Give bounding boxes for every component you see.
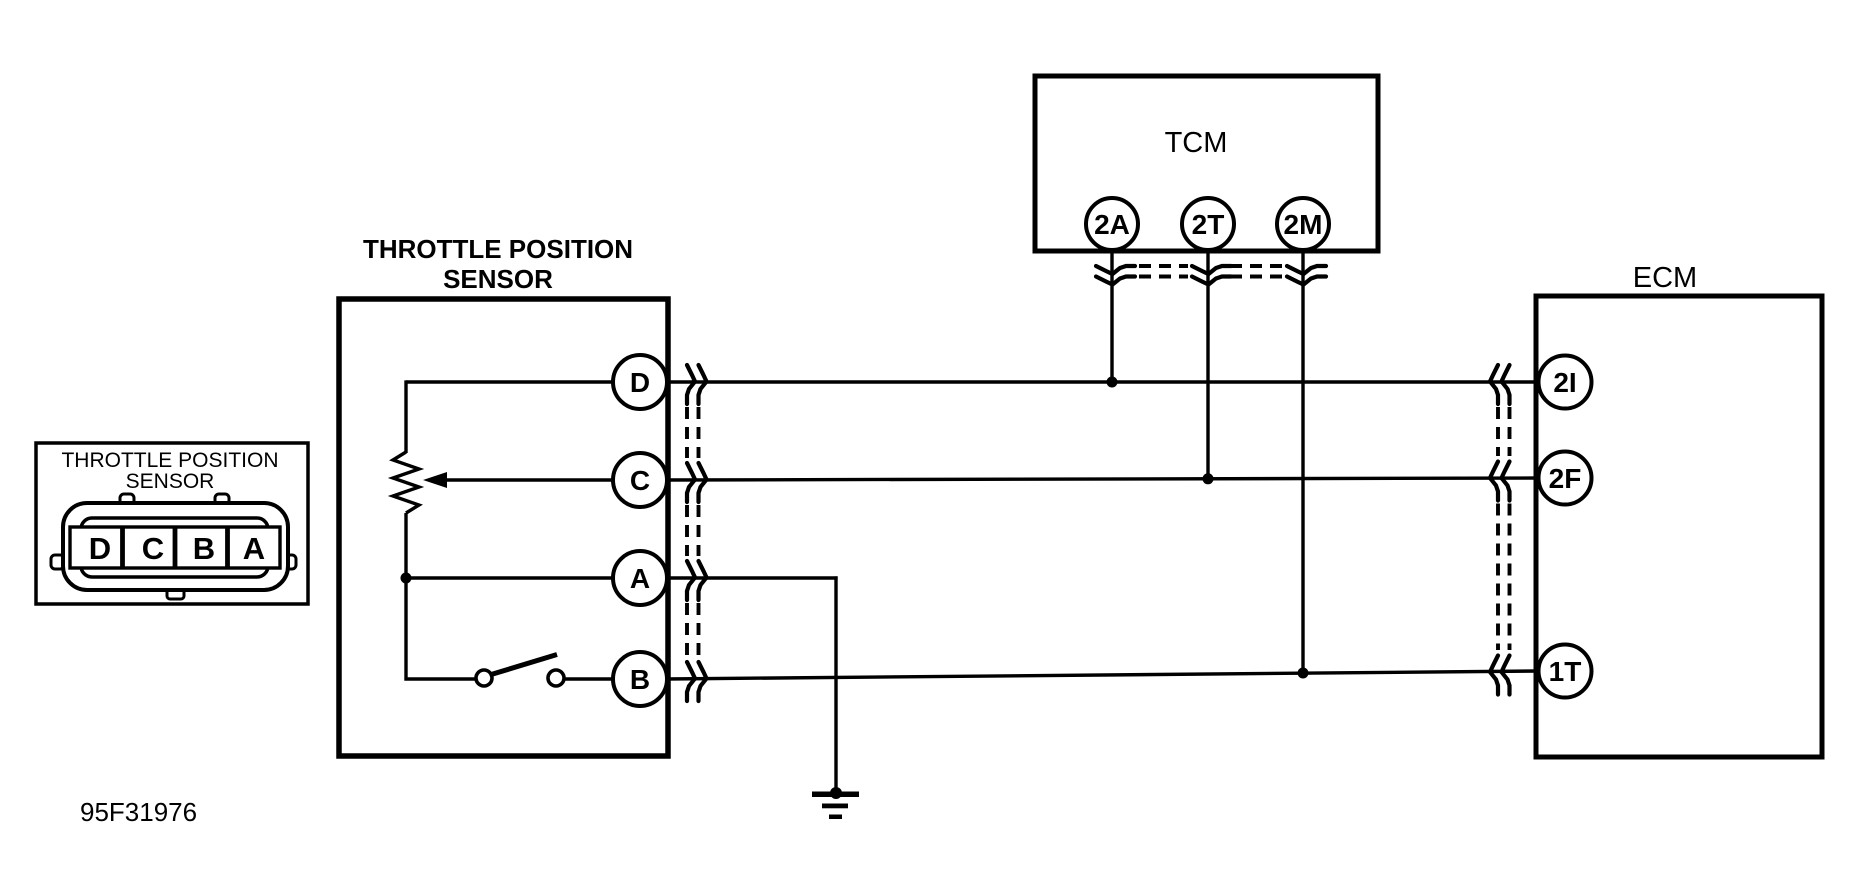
wire vertical from resistor bottom to B corner <box>406 513 477 679</box>
svg-text:THROTTLE POSITION: THROTTLE POSITION <box>363 234 633 264</box>
connector dashed link TCM side <box>1139 266 1283 277</box>
svg-text:ECM: ECM <box>1633 262 1697 294</box>
pin A <box>613 551 667 605</box>
pin 2A <box>1086 198 1138 250</box>
wire vertical from D to resistor top <box>404 380 407 453</box>
wiper arrowhead pointing at resistor <box>423 472 447 488</box>
connector view frame <box>36 443 308 604</box>
wire ground drop vertical <box>834 576 837 793</box>
pin C <box>613 453 667 507</box>
wire break marks TCM side, 2M wire <box>1287 266 1326 285</box>
node junction 2A to D wire <box>1107 377 1118 388</box>
connector top lug left <box>120 494 134 507</box>
svg-text:2M: 2M <box>1284 209 1323 240</box>
resistor (potentiometer element) <box>393 452 419 513</box>
svg-text:2T: 2T <box>1192 209 1225 240</box>
TCM box <box>1035 76 1378 251</box>
svg-text:SENSOR: SENSOR <box>443 264 553 294</box>
terminal divider C|B <box>173 527 178 568</box>
wire B row from sensor to ECM <box>666 671 1539 679</box>
switch lever (open throttle switch) <box>490 655 558 676</box>
wire break marks ECM side, C row <box>1490 462 1510 501</box>
wire break marks ECM side, B row <box>1490 656 1510 695</box>
svg-text:D: D <box>89 531 111 566</box>
connector side lug right <box>283 555 296 569</box>
connector view title <box>61 449 278 493</box>
svg-text:D: D <box>630 367 650 398</box>
svg-text:95F31976: 95F31976 <box>80 797 197 827</box>
connector bottom lug <box>167 586 184 599</box>
wire break marks TCM side, 2A wire <box>1096 266 1135 285</box>
ground symbol <box>812 787 859 819</box>
wire A row inside sensor <box>406 576 614 579</box>
pin D <box>613 355 667 409</box>
terminal strip <box>70 527 280 568</box>
svg-text:1T: 1T <box>1549 656 1582 687</box>
ECM box <box>1536 296 1822 757</box>
wire A row from sensor to ground drop <box>666 576 838 579</box>
switch contact circle right <box>548 670 564 686</box>
wire break marks sensor side, A row <box>687 561 707 600</box>
pin 2T <box>1182 198 1234 250</box>
wire break marks TCM side, 2T wire <box>1192 266 1231 285</box>
connector top lug right <box>215 494 229 507</box>
throttle position sensor box <box>339 299 668 756</box>
wire D row inside sensor <box>406 380 614 383</box>
svg-text:TCM: TCM <box>1165 127 1228 159</box>
pin B <box>613 652 667 706</box>
pin 1T <box>1539 645 1592 698</box>
wire C wiper arrow line <box>443 478 614 481</box>
wire break marks sensor side, B row <box>687 662 707 701</box>
wire break marks sensor side, C row <box>687 463 707 502</box>
wire TCM pin 2M vertical <box>1301 250 1304 673</box>
wire break (connector) marks sensor side, D row <box>687 365 707 404</box>
pin 2I <box>1539 356 1592 409</box>
connector dashed link ECM side <box>1498 407 1510 650</box>
node junction dot A row on vertical <box>401 573 412 584</box>
svg-text:C: C <box>142 531 164 566</box>
svg-text:2I: 2I <box>1553 367 1576 398</box>
wire D row from sensor to ECM <box>666 380 1539 383</box>
wire C row from sensor to ECM <box>666 478 1539 480</box>
terminal divider D|C <box>120 527 125 568</box>
pin 2F <box>1539 452 1592 505</box>
svg-text:2A: 2A <box>1094 209 1130 240</box>
connector side lug left <box>51 555 64 569</box>
connector outer shell <box>63 503 288 590</box>
terminal divider B|A <box>225 527 230 568</box>
svg-text:B: B <box>630 664 650 695</box>
node junction 2T to C wire <box>1203 473 1214 484</box>
svg-text:2F: 2F <box>1549 463 1582 494</box>
wire TCM pin 2A vertical <box>1110 250 1113 382</box>
wire from switch to pin B <box>565 677 614 680</box>
connector inner shell <box>81 518 268 577</box>
svg-text:SENSOR: SENSOR <box>126 470 215 493</box>
node junction 2M to B wire <box>1298 668 1309 679</box>
svg-text:A: A <box>243 531 265 566</box>
svg-text:C: C <box>630 465 650 496</box>
svg-text:THROTTLE POSITION: THROTTLE POSITION <box>61 449 278 472</box>
throttle position sensor box title <box>363 234 633 294</box>
wire TCM pin 2T vertical <box>1206 250 1209 479</box>
connector dashed link sensor side <box>687 407 699 657</box>
switch contact circle left <box>476 670 492 686</box>
svg-text:B: B <box>193 531 215 566</box>
pin 2M <box>1277 198 1329 250</box>
wire break marks ECM side, D row <box>1490 365 1510 404</box>
svg-text:A: A <box>630 563 650 594</box>
